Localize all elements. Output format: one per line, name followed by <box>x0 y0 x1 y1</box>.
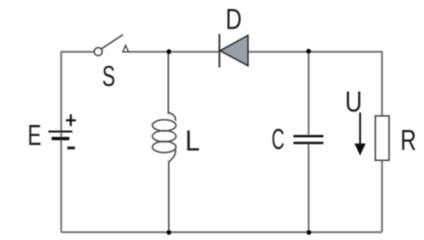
wire capacitor branch <box>308 51 310 135</box>
capacitor C <box>293 135 323 144</box>
junction node top-left (L) <box>167 49 172 54</box>
svg-text:R: R <box>400 125 416 157</box>
junction node bottom-left (L) <box>167 230 172 235</box>
svg-text:U: U <box>345 85 362 118</box>
svg-text:E: E <box>28 120 42 152</box>
resistor R <box>375 116 389 160</box>
junction node top-right (C) <box>306 49 311 54</box>
wire top middle segment <box>129 51 219 53</box>
svg-text:C: C <box>272 124 285 156</box>
diode D <box>219 34 248 68</box>
svg-text:D: D <box>226 4 242 35</box>
voltage arrow U <box>355 113 366 156</box>
wire top-left segment <box>61 51 94 53</box>
junction node bottom-right (C) <box>307 230 312 235</box>
wire left vertical <box>60 51 62 131</box>
inductor L <box>152 51 176 232</box>
wire top right segment <box>248 51 382 53</box>
battery E <box>48 114 76 149</box>
svg-text:L: L <box>185 125 200 157</box>
switch S <box>94 35 128 56</box>
wire right vertical <box>381 51 383 116</box>
svg-text:S: S <box>102 61 115 93</box>
wire bottom horizontal <box>61 231 382 233</box>
